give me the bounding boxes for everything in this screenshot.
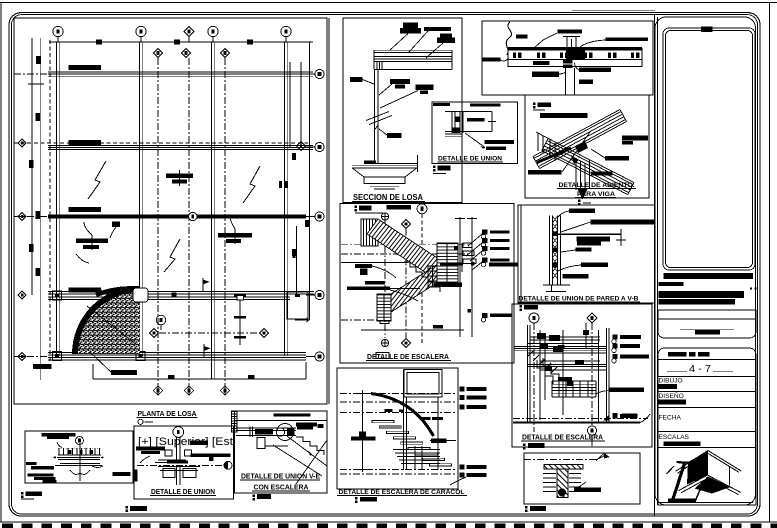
plan axis bubble 3 bbox=[208, 26, 218, 36]
seccion label bars mid2 bbox=[416, 85, 434, 95]
cu brackets upper bbox=[165, 450, 172, 456]
union scale marker bbox=[433, 166, 451, 172]
ve beam bbox=[236, 427, 296, 429]
rstair scale marker bbox=[523, 443, 545, 449]
deck label bar below-right bbox=[579, 68, 611, 73]
pared beam label bars bbox=[577, 237, 611, 246]
seccion top hat symbol 1 bbox=[400, 23, 421, 34]
plan zigzag arrow 2 bbox=[243, 166, 260, 203]
ve panel box bbox=[235, 411, 328, 493]
stair small cells column bbox=[428, 266, 437, 287]
blu bubble bbox=[76, 437, 84, 445]
plan axis diamond b bbox=[181, 48, 190, 57]
bottom band line bbox=[0, 521, 777, 523]
tb logo black left face bbox=[687, 451, 708, 485]
pared wall base bbox=[543, 284, 570, 286]
stair dim verticals right bbox=[459, 217, 461, 337]
bottom dashed band bbox=[2, 524, 777, 528]
plan zigzag arrow 1 bbox=[88, 161, 106, 199]
plan left diamond row 1 bbox=[18, 139, 26, 147]
tb logo letter L bbox=[677, 462, 692, 463]
tb redacted bars bbox=[659, 273, 757, 304]
plan left diamond row 4 bbox=[18, 352, 26, 360]
blu lines bbox=[57, 456, 100, 458]
cu bars bbox=[136, 441, 231, 462]
plan text bar row3 bbox=[69, 207, 102, 212]
blu left bars bbox=[26, 462, 57, 483]
seccion top hat symbol 2 bbox=[437, 34, 455, 44]
deck bar top middle bbox=[558, 30, 583, 34]
cu leader bbox=[140, 456, 150, 463]
top-right deck panel box bbox=[482, 21, 653, 95]
deck bar small bbox=[516, 35, 528, 39]
plan column symbol stack bbox=[234, 295, 246, 339]
stair left long bar bbox=[365, 281, 385, 284]
deck lifting lug bbox=[566, 37, 568, 49]
union bar top-left bbox=[433, 103, 450, 106]
cu brackets lower bbox=[163, 469, 175, 478]
stair callouts right bbox=[482, 230, 488, 235]
tb logo roof left slope bbox=[676, 451, 709, 472]
stair diagonal flight band upper bbox=[367, 219, 448, 280]
plan diamond row mid-right bbox=[259, 328, 268, 337]
abiento joint dark marks bbox=[575, 141, 588, 153]
svg-text:DETALLE DE ESCALERA: DETALLE DE ESCALERA bbox=[367, 352, 449, 361]
anchor step notch bbox=[604, 454, 610, 459]
rstair bubble circle bbox=[529, 313, 539, 323]
plan left diamond row 2 bbox=[18, 212, 26, 220]
plan beam row5 bbox=[14, 356, 48, 358]
caracol panel box bbox=[337, 368, 458, 489]
stair bottom small rect bbox=[376, 353, 389, 359]
seccion slab bbox=[374, 49, 452, 51]
blu top bars bbox=[42, 433, 76, 439]
deck label bar small right bbox=[579, 80, 593, 85]
page left border bbox=[0, 2, 2, 522]
svg-text:DETALLE DE ESCALERA DE CARACOL: DETALLE DE ESCALERA DE CARACOL bbox=[339, 489, 465, 496]
deck squiggle bbox=[506, 22, 511, 55]
abiento panel box bbox=[525, 95, 649, 198]
ve stringers bbox=[287, 436, 327, 466]
page top border bbox=[0, 1, 777, 3]
pared scale marker bbox=[520, 305, 539, 311]
stair left T symbol bbox=[355, 264, 372, 275]
stair top diamond bbox=[401, 219, 410, 228]
plan right bubble row 2 bbox=[315, 142, 324, 151]
pared beam line bbox=[557, 233, 621, 235]
tb logo roof right slope bbox=[708, 451, 741, 472]
tb logo valley right edge bbox=[708, 475, 741, 492]
union center bar bbox=[467, 118, 485, 122]
plan flag marker 1 bbox=[202, 278, 204, 291]
deck bar top right bbox=[606, 37, 649, 41]
plan right bubble row 5 bbox=[315, 352, 324, 361]
ve steps bbox=[296, 437, 324, 455]
plan left dim text blobs bbox=[29, 56, 41, 276]
cu scale marker below bbox=[126, 506, 148, 512]
anchor top hatch bar bbox=[544, 465, 583, 470]
deck flute blocks bbox=[513, 53, 639, 59]
plan right rectangle column bbox=[287, 292, 308, 319]
plan grid centerline 3 bbox=[224, 58, 226, 386]
plan beam row4 bbox=[48, 291, 314, 293]
pared label top bbox=[569, 209, 595, 214]
seccion footing bbox=[352, 165, 417, 167]
caracol left dim line bbox=[362, 390, 364, 472]
pared wall strip bbox=[549, 216, 551, 286]
ve big circle bbox=[277, 424, 294, 441]
plan diamond row mid-left bbox=[149, 328, 158, 337]
plan quarter-circle hatched slab bbox=[75, 289, 140, 354]
svg-text:DETALLE DE UNION V-E: DETALLE DE UNION V-E bbox=[241, 474, 320, 481]
svg-text:PLANTA DE LOSA: PLANTA DE LOSA bbox=[138, 409, 197, 418]
union bars bottom right bbox=[485, 140, 515, 144]
deck band bbox=[508, 49, 642, 60]
plan right bubble row 4 bbox=[315, 290, 324, 299]
plan axis bubble 4 bbox=[281, 26, 291, 36]
stair small step rects bbox=[463, 243, 472, 248]
stair steps zigzag bbox=[404, 262, 440, 292]
plan bottom diamond b bbox=[184, 386, 193, 395]
plan bottom diamond a bbox=[153, 386, 162, 395]
plan beam3 small marker bbox=[112, 222, 120, 228]
caracol dashdot levels bottom bbox=[340, 469, 455, 471]
center union panel box bbox=[134, 426, 234, 499]
caracol scale marker bbox=[355, 497, 377, 503]
stair tread stack right bbox=[437, 243, 458, 285]
deck label bar below-left bbox=[532, 72, 559, 78]
deck label bar left bbox=[482, 58, 501, 62]
svg-text:DETALLE DE UNION DE PARED A V-: DETALLE DE UNION DE PARED A V-B bbox=[519, 296, 639, 303]
tb logo bbox=[658, 502, 753, 504]
plan section symbol T2 bbox=[76, 239, 108, 249]
caracol right callouts top bbox=[460, 387, 465, 392]
blu center stem bbox=[79, 443, 81, 481]
svg-text:4 - 7: 4 - 7 bbox=[689, 363, 711, 375]
stair leader curves bbox=[372, 266, 396, 278]
stair landing line bbox=[341, 262, 408, 264]
svg-text:DETALLE DE ABIENTO.: DETALLE DE ABIENTO. bbox=[559, 182, 635, 189]
caracol landing box bbox=[404, 370, 442, 398]
stair dashdot horizontals bbox=[341, 244, 472, 246]
plan axis bubble B bbox=[184, 27, 194, 37]
rstair steps cluster bbox=[539, 330, 541, 420]
anchor rebar lines bbox=[543, 474, 581, 492]
abiento beam end lower-left bbox=[537, 133, 539, 151]
abiento marker top-left bbox=[533, 103, 551, 109]
plan leader curve bbox=[101, 290, 118, 297]
svg-text:[+] [Superior] [Est: [+] [Superior] [Est bbox=[138, 436, 234, 448]
blu deck strip bbox=[58, 447, 101, 449]
abiento bars right bbox=[622, 136, 648, 145]
stair tread stack bottom-left bbox=[377, 294, 391, 321]
plan black bar below disc bbox=[111, 370, 137, 375]
seccion scale marker bbox=[355, 205, 412, 212]
cu stem bbox=[176, 437, 178, 462]
plan flag marker 2 bbox=[203, 344, 205, 357]
caracol right callouts bottom bbox=[460, 464, 465, 469]
cu left black bar vertical bbox=[134, 470, 138, 482]
tb logo valley left edge bbox=[679, 475, 708, 491]
plan vertical beam V1 bbox=[55, 42, 57, 356]
cu dashdot bbox=[137, 464, 224, 466]
deck lower band bbox=[508, 60, 642, 67]
ve right bars bbox=[296, 423, 324, 430]
bottom-left union panel box bbox=[25, 431, 133, 483]
seccion de losa panel box bbox=[343, 18, 462, 203]
title block rounded rect bbox=[655, 17, 756, 505]
plan right vertical line bbox=[296, 226, 298, 295]
rstair tread grid bbox=[552, 381, 596, 397]
caracol dashdot levels top bbox=[340, 393, 455, 395]
ve column bbox=[257, 438, 265, 449]
rstair bottom lines bbox=[513, 418, 648, 420]
small union detail box bbox=[432, 102, 518, 164]
pared label bottom bbox=[563, 274, 589, 278]
seccion label bar left bbox=[350, 77, 363, 82]
caracol label bar left bbox=[351, 436, 376, 440]
seccion top flat bar bbox=[424, 27, 451, 31]
ve top line bbox=[235, 420, 328, 422]
plan right bubble row 1 bbox=[315, 69, 324, 78]
rstair right callouts bbox=[613, 334, 618, 339]
svg-text:SECCION DE LOSA: SECCION DE LOSA bbox=[353, 193, 423, 202]
stair detail panel box bbox=[340, 204, 514, 363]
plan bottom diamond c bbox=[220, 386, 229, 395]
svg-text:CON ESCALERA: CON ESCALERA bbox=[254, 485, 309, 492]
anchor leader + bar bbox=[576, 482, 586, 489]
anchor detail box bbox=[524, 453, 640, 504]
stair callout leaders bbox=[468, 234, 482, 246]
union I-beam end bbox=[445, 111, 492, 113]
abiento bars bottom bbox=[528, 170, 562, 175]
svg-text:DISEÑO: DISEÑO bbox=[659, 391, 684, 400]
seccion label bars mid bbox=[390, 79, 410, 89]
plan text bar row2 bbox=[69, 140, 102, 145]
ve long diagonal bbox=[296, 440, 327, 484]
tb big box bbox=[663, 28, 755, 270]
plan grid centerline 2 bbox=[188, 58, 190, 386]
plan right dim verticals bbox=[289, 62, 291, 147]
pared panel box bbox=[518, 205, 655, 303]
caracol lower tread lines bbox=[393, 450, 440, 464]
rstair verticals bbox=[527, 325, 529, 422]
union bracket right bbox=[491, 112, 493, 132]
plan left dimension line a bbox=[31, 38, 33, 295]
svg-text:DETALLE DE UNION: DETALLE DE UNION bbox=[151, 487, 215, 496]
floor plan panel box bbox=[14, 18, 327, 404]
plan right bubble row 3 bbox=[315, 212, 324, 221]
plan bubble near disc bbox=[156, 315, 166, 325]
stair bottom diamond bbox=[401, 338, 410, 347]
plan beam row2 bbox=[14, 142, 308, 144]
stair diagonal flight band lower bbox=[380, 264, 446, 314]
page top second line bbox=[572, 10, 655, 12]
abiento leader lines bbox=[562, 132, 590, 172]
tb middle section box bbox=[658, 310, 756, 338]
plan beam row2 right diamond bbox=[297, 142, 306, 151]
plan section symbol T1 bbox=[166, 174, 193, 184]
plan vertical beam V4 bbox=[283, 42, 285, 356]
seccion column bbox=[374, 70, 376, 164]
pared label mid bbox=[576, 248, 592, 252]
stair bottom bubble cross bbox=[381, 339, 388, 346]
abiento bar mid-right bbox=[605, 156, 629, 161]
ve top bar bbox=[274, 414, 311, 417]
title block divider bbox=[654, 15, 656, 516]
caracol dim blob bbox=[359, 432, 366, 438]
ve ladder symbol bbox=[232, 411, 238, 432]
abiento iso beam up-right bbox=[533, 110, 634, 195]
abiento thick flange line bbox=[537, 148, 571, 163]
stair bottom dim line bbox=[361, 329, 464, 331]
deck column below bbox=[565, 68, 567, 95]
right stair panel box bbox=[512, 304, 652, 447]
svg-text:DETALLE DE ESCALERA: DETALLE DE ESCALERA bbox=[522, 433, 603, 442]
abiento column below joint bbox=[575, 158, 577, 190]
abiento label bar big bbox=[540, 113, 588, 118]
plan vertical beam V2 bbox=[138, 42, 140, 356]
svg-text:FECHA: FECHA bbox=[659, 414, 682, 421]
plan axis diamond a bbox=[153, 48, 162, 57]
tb logo black lower wedge bbox=[695, 477, 731, 494]
pared label big right bbox=[591, 220, 655, 225]
rstair horizontals bbox=[514, 346, 607, 348]
plan axis bubble 2 bbox=[136, 26, 146, 36]
page right border bbox=[768, 2, 770, 522]
anchor column bbox=[557, 469, 568, 498]
rstair bubble diamond bbox=[587, 313, 597, 323]
caracol treads bbox=[372, 421, 452, 466]
ve scale marker bbox=[253, 494, 272, 500]
plan section symbol T3 bbox=[218, 233, 252, 243]
anchor bottom blob bbox=[558, 489, 566, 497]
plan left diamond row 3 bbox=[18, 291, 26, 299]
union bar top bbox=[470, 104, 501, 107]
stair lower callout bbox=[482, 313, 488, 318]
abiento scale marker bbox=[578, 200, 581, 206]
caracol center pole bbox=[403, 370, 405, 471]
pared label lower bbox=[581, 263, 608, 268]
plan black bar left-bottom bbox=[33, 364, 52, 369]
rstair bottom bubble bbox=[587, 426, 596, 435]
plan axis diamond c bbox=[220, 48, 229, 57]
plan zigzag arrow 3 bbox=[164, 239, 180, 272]
stair top bubble cross bbox=[381, 213, 388, 220]
plan left dashed grid line bbox=[49, 40, 51, 362]
stair node squares bbox=[454, 246, 474, 312]
blu right bar bbox=[113, 472, 131, 476]
plan grid centerline 1 bbox=[157, 58, 159, 386]
stair top circle bbox=[417, 204, 427, 214]
plan left dimension line b bbox=[40, 38, 42, 380]
plan beam row1 bbox=[14, 73, 48, 75]
tb logo right face edge bbox=[729, 467, 731, 486]
abiento iso beam down-right bbox=[548, 139, 634, 183]
svg-text:ESCALAS: ESCALAS bbox=[659, 434, 690, 441]
blu scale marker bbox=[21, 492, 42, 499]
plan text bar row1 bbox=[69, 65, 102, 70]
plan beam row3 (thick) bbox=[14, 216, 48, 218]
plan vertical beam V3 bbox=[210, 42, 212, 379]
caracol center black marks bbox=[385, 409, 444, 420]
svg-text:DETALLE DE UNION: DETALLE DE UNION bbox=[438, 156, 502, 163]
stair flight top-left hatch bbox=[361, 219, 378, 246]
cu bubble bbox=[173, 427, 184, 438]
seccion leader lines bbox=[390, 34, 408, 51]
svg-text:DIBUJO: DIBUJO bbox=[659, 378, 683, 385]
seccion break mark bbox=[366, 112, 389, 121]
tb lower section box bbox=[658, 348, 756, 505]
stair mid callout bar bbox=[434, 282, 462, 286]
anchor scale marker bbox=[525, 506, 546, 512]
plan bottom dimension line bbox=[93, 378, 306, 380]
seccion base plate bbox=[364, 161, 376, 165]
blu leader bbox=[57, 442, 62, 448]
seccion label bar lower bbox=[387, 133, 402, 138]
rstair hatch marks bbox=[527, 351, 557, 373]
union leader arrow bbox=[465, 133, 485, 148]
caracol bar below curve bbox=[431, 438, 447, 443]
deck bolt group bbox=[563, 60, 573, 69]
tb small bars row bbox=[668, 352, 710, 356]
tb top tab bbox=[701, 27, 713, 33]
plan text bar row4 bbox=[69, 288, 102, 293]
plan axis bubble 1 bbox=[53, 26, 63, 36]
plan top dimension line bbox=[49, 41, 313, 43]
caracol spiral stringer curve bbox=[371, 394, 434, 437]
